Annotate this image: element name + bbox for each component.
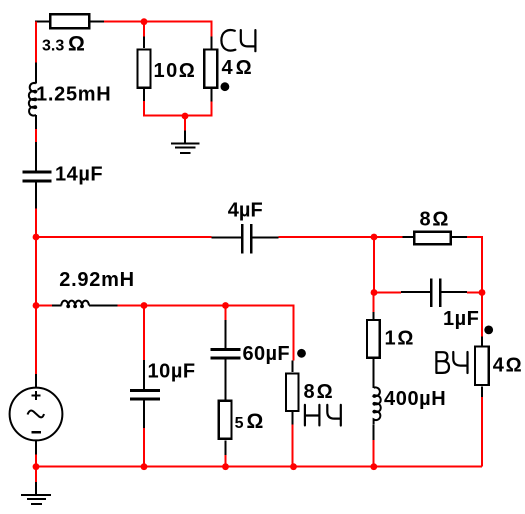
wire ground stub left (red) — [35, 467, 37, 482]
resistor R3 4Ω СЧ bottom lead — [211, 89, 213, 102]
svg-text:400µH: 400µH — [384, 388, 446, 410]
capacitor C1 14µF top lead — [35, 142, 37, 171]
capacitor C4 bottom lead — [143, 401, 145, 429]
node junction bottom bus left — [33, 463, 40, 470]
wire AC source to bottom bus (red) — [35, 455, 37, 467]
node junction СЧ ground tap — [182, 113, 189, 120]
wire top rail (red) — [104, 21, 213, 23]
svg-text:4µF: 4µF — [228, 200, 263, 222]
capacitor C5 60µF plates — [211, 348, 241, 351]
resistor R6 bottom lead — [292, 412, 294, 424]
svg-text:8Ω: 8Ω — [420, 209, 451, 231]
wire mid bus right segment (red) — [279, 236, 403, 238]
capacitor C5 60µF top lead — [225, 320, 227, 348]
resistor R3 4Ω СЧ top lead — [211, 37, 213, 49]
resistor R8 4Ω ВЧ top lead — [481, 337, 483, 346]
AC source V1 bottom lead — [35, 440, 37, 454]
AC source V1 top lead — [35, 374, 37, 388]
wire 10µF branch top (red) — [143, 306, 145, 361]
capacitor C1 bottom lead — [35, 183, 37, 209]
resistor R1 3.3Ω right lead — [90, 21, 105, 23]
resistor R6 8Ω НЧ body — [286, 374, 299, 411]
svg-text:2.92mH: 2.92mH — [59, 269, 134, 291]
inductor L3 400µH coil — [374, 387, 381, 424]
wire 60µF branch top (red) — [225, 306, 227, 321]
wire 2.92mH row right (red) — [117, 306, 293, 361]
ground СЧ — [171, 131, 199, 154]
resistor R7 1Ω top lead — [373, 312, 375, 320]
node junction mid bus at 374 — [371, 234, 378, 241]
capacitor C3 1µF left lead — [401, 291, 430, 293]
node junction bottom bus 374 — [370, 463, 377, 470]
resistor R2 10Ω top lead — [143, 37, 145, 48]
wire ВЧ branch top (red) — [481, 293, 483, 337]
resistor R4 8Ω left lead — [402, 236, 413, 238]
wire mid bus right corner (red) — [467, 237, 482, 293]
AC source V1 circle — [10, 388, 63, 441]
capacitor C2 4µF left lead — [211, 236, 241, 238]
svg-text:4Ω: 4Ω — [493, 355, 524, 377]
svg-text:4Ω: 4Ω — [222, 57, 255, 79]
wire ground stub СЧ (red) — [184, 116, 186, 132]
wire 10µF branch bottom (red) — [143, 428, 145, 467]
capacitor C3 right lead — [442, 291, 467, 293]
resistor R5 bottom lead — [225, 440, 227, 455]
wire 4Ω bottom (red) — [211, 102, 213, 116]
wire C1 to mid bus (red) — [35, 209, 37, 238]
label СЧ — [221, 30, 255, 51]
wire between L1 and C1 (red) — [35, 129, 37, 142]
inductor L1 1.25mH top lead — [35, 63, 37, 84]
node junction row at 144 — [141, 302, 148, 309]
node junction 2.92mH row left — [33, 302, 40, 309]
phase dot НЧ — [297, 349, 306, 358]
resistor R1 3.3Ω body — [50, 14, 89, 28]
wire 374 branch down (red) — [373, 237, 375, 293]
wire 1µF row left (red) — [374, 292, 401, 294]
node junction row at 225.5 — [222, 302, 229, 309]
svg-text:1.25mH: 1.25mH — [36, 84, 111, 106]
resistor R5 5Ω body — [219, 401, 232, 439]
node junction 1µF row left — [371, 289, 378, 296]
node junction bottom bus 144 — [141, 463, 148, 470]
resistor R7 1Ω body — [367, 320, 380, 358]
wire ВЧ to bottom bus (red) — [481, 397, 483, 467]
wire 10Ω bottom (red) — [143, 101, 145, 117]
capacitor C1 14µF plates — [22, 171, 51, 174]
capacitor C4 10µF top lead — [143, 360, 145, 389]
capacitor C2 right lead — [253, 236, 279, 238]
wire mid bus left segment (red) — [36, 236, 211, 238]
svg-text:60µF: 60µF — [243, 343, 290, 365]
phase dot СЧ — [221, 82, 230, 91]
capacitor C4 10µF plates — [130, 389, 160, 392]
capacitor C3 1µF plates — [430, 279, 433, 308]
resistor R4 8Ω right lead — [452, 236, 467, 238]
wire 5Ω to bottom bus (red) — [225, 455, 227, 467]
capacitor C2 4µF plates — [241, 224, 244, 253]
resistor R8 bottom lead — [481, 386, 483, 397]
wire НЧ to bottom bus (red) — [292, 424, 294, 466]
AC source sine symbol — [28, 411, 45, 418]
resistor R2 10Ω bottom lead — [143, 89, 145, 101]
inductor L1 bottom lead — [35, 115, 37, 129]
wire AC source top (red) — [35, 306, 37, 375]
label ВЧ — [436, 352, 467, 373]
node junction bottom bus 293 — [290, 463, 297, 470]
AC source plus sign — [32, 391, 41, 400]
ground left — [21, 482, 51, 504]
node junction top rail — [141, 18, 148, 25]
resistor R4 8Ω body — [414, 232, 450, 244]
svg-text:8Ω: 8Ω — [304, 381, 335, 403]
resistor R2 10Ω body — [137, 49, 150, 87]
wire top rail corner down (red) — [211, 21, 213, 37]
capacitor C5 bottom lead / resistor R5 top lead — [225, 360, 227, 400]
inductor L1 1.25mH coil — [29, 83, 36, 116]
inductor L2 right lead — [89, 305, 117, 307]
wire left column upper (red) — [35, 22, 37, 63]
inductor L2 2.92mH coil — [61, 301, 89, 306]
svg-text:10Ω: 10Ω — [154, 60, 197, 82]
wire bottom bus (red) — [36, 466, 482, 468]
wire 2.92mH row left (red) — [36, 305, 52, 307]
wire top-left lead (black) — [35, 21, 50, 23]
resistor R8 4Ω ВЧ body — [475, 347, 489, 386]
svg-text:10µF: 10µF — [148, 361, 196, 383]
svg-text:14µF: 14µF — [55, 164, 103, 186]
wire СЧ bottom rail (red) — [143, 115, 213, 117]
wire 1Ω branch top (red) — [373, 293, 375, 313]
wire 1Ω branch to bottom bus (red) — [373, 440, 375, 467]
inductor L3 bottom lead — [373, 424, 375, 440]
wire 10Ω top branch (red) — [143, 22, 145, 37]
inductor L2 2.92mH left lead — [52, 305, 61, 307]
node junction 1µF row right — [479, 289, 486, 296]
svg-text:1µF: 1µF — [443, 308, 479, 330]
AC source minus sign — [32, 431, 42, 434]
node junction mid bus left — [33, 234, 40, 241]
svg-text:1Ω: 1Ω — [385, 328, 416, 350]
wire 1µF row right (red) — [467, 292, 482, 294]
resistor R6 8Ω НЧ top lead — [292, 360, 294, 372]
wire mid bus to 2.92mH row (red) — [35, 237, 37, 306]
resistor R7 bottom lead — [373, 359, 375, 388]
resistor R3 4Ω СЧ body — [204, 50, 217, 88]
label НЧ — [305, 405, 341, 426]
phase dot ВЧ — [484, 326, 493, 335]
node junction bottom bus 225 — [222, 463, 229, 470]
